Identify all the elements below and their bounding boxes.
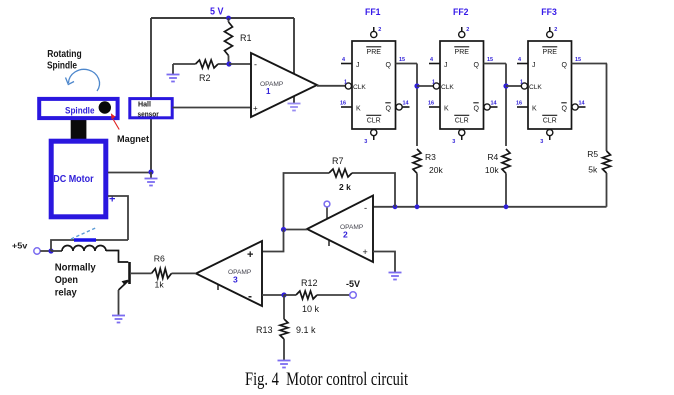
svg-text:OPAMP: OPAMP bbox=[260, 81, 284, 88]
flip-flop FF3 J pin stub (pin 4) bbox=[517, 63, 528, 65]
op-amp U2 triangle bbox=[307, 196, 373, 263]
wire +5v terminal to junction bbox=[40, 250, 51, 252]
wire relay contact branch bbox=[51, 240, 128, 251]
ground at opamp U2 plus input bbox=[389, 272, 402, 274]
svg-text:2: 2 bbox=[466, 27, 469, 33]
svg-text:FF2: FF2 bbox=[453, 7, 469, 17]
op-amp U3 triangle bbox=[196, 241, 262, 306]
wire FF3 Q drop to R5 bbox=[606, 64, 608, 152]
svg-text:3: 3 bbox=[364, 139, 367, 145]
svg-text:Hall: Hall bbox=[138, 102, 151, 109]
terminal -5V bbox=[350, 292, 357, 299]
wire flip-flop FF2 Q output bbox=[484, 63, 507, 65]
svg-text:15: 15 bbox=[399, 57, 405, 63]
flip-flop FF2 CLR bubble and stem (pin 3) bbox=[459, 130, 465, 136]
svg-text:2: 2 bbox=[343, 230, 348, 240]
wire motor positive terminal to relay contact bbox=[108, 196, 128, 240]
svg-text:+5v: +5v bbox=[12, 241, 28, 250]
svg-text:FF1: FF1 bbox=[365, 7, 381, 17]
svg-text:15: 15 bbox=[575, 57, 581, 63]
svg-text:PRE: PRE bbox=[367, 49, 382, 56]
svg-text:CLR: CLR bbox=[543, 118, 557, 125]
ground below R13 bbox=[278, 360, 291, 362]
wire opamp U2 output bbox=[284, 229, 308, 231]
flip-flop FF1 J pin stub (pin 4) bbox=[341, 63, 352, 65]
flip-flop FF1 PRE pin stem and bubble (pin 2) bbox=[373, 27, 375, 31]
svg-text:2: 2 bbox=[554, 27, 557, 33]
relay contact bar (blue) bbox=[74, 238, 96, 242]
wire FF2 Q drop to CLK3/R4 bbox=[505, 64, 507, 147]
resistor R4 bbox=[502, 149, 510, 173]
svg-text:-: - bbox=[248, 289, 252, 303]
transistor Q1 emitter wire bbox=[119, 281, 129, 291]
svg-text:R12: R12 bbox=[301, 278, 318, 288]
svg-text:Q: Q bbox=[562, 106, 568, 113]
svg-text:R13: R13 bbox=[256, 325, 273, 335]
wire to FF2 CLK bbox=[417, 85, 433, 87]
node relay junction bbox=[48, 248, 53, 253]
node FF1 Q / FF2 CLK junction bbox=[414, 83, 419, 88]
rotation arrow (blue arc) bbox=[69, 69, 100, 91]
ground below transistor Q1 bbox=[112, 315, 125, 317]
svg-text:10 k: 10 k bbox=[302, 304, 320, 314]
wire summing bus to opamp U2 inverting input bbox=[373, 206, 607, 208]
svg-text:FF3: FF3 bbox=[541, 7, 557, 17]
wire flip-flop FF3 Q output bbox=[572, 63, 608, 65]
svg-text:5k: 5k bbox=[588, 165, 598, 175]
transistor Q1 collector wire bbox=[106, 251, 128, 263]
wire opamp U3 minus input bbox=[262, 294, 284, 296]
dc motor box bbox=[51, 141, 106, 217]
op-amp U3 V- tick bbox=[217, 284, 219, 290]
flip-flop FF3 K pin stub (pin 16) bbox=[517, 106, 528, 108]
op-amp U2 V- tick bbox=[328, 240, 330, 246]
svg-text:16: 16 bbox=[428, 101, 434, 107]
node FF2 Q / FF3 CLK junction bbox=[503, 83, 508, 88]
svg-text:R7: R7 bbox=[332, 156, 344, 166]
flip-flop FF3 CLR bubble and stem (pin 3) bbox=[547, 130, 553, 136]
spindle box bbox=[39, 99, 117, 118]
svg-text:Q: Q bbox=[386, 62, 392, 69]
node R4 junction on bus bbox=[504, 204, 509, 209]
flip-flop FF3 PRE pin stem and bubble (pin 2) bbox=[549, 27, 551, 31]
svg-text:1: 1 bbox=[432, 80, 435, 86]
svg-text:Spindle: Spindle bbox=[65, 106, 95, 116]
flip-flop FF2 PRE pin stem and bubble (pin 2) bbox=[461, 27, 463, 31]
svg-text:14: 14 bbox=[491, 101, 498, 107]
flip-flop FF2 box bbox=[440, 41, 484, 129]
svg-text:Spindle: Spindle bbox=[47, 61, 77, 72]
flip-flop FF2 Qbar bubble and stub (pin 14) bbox=[484, 104, 490, 110]
wire R7 left leg to opamp U2 output bbox=[284, 173, 330, 230]
relay armature (dashed) bbox=[71, 228, 96, 239]
svg-text:J: J bbox=[532, 62, 536, 69]
svg-text:OPAMP: OPAMP bbox=[228, 269, 252, 276]
svg-text:K: K bbox=[532, 106, 537, 113]
flip-flop FF2 J pin stub (pin 4) bbox=[429, 63, 440, 65]
svg-text:PRE: PRE bbox=[455, 49, 470, 56]
resistor R12 bbox=[296, 291, 317, 299]
svg-text:J: J bbox=[356, 62, 360, 69]
transistor Q1 base bar bbox=[128, 262, 131, 284]
resistor R6 bbox=[152, 269, 172, 279]
svg-text:+: + bbox=[247, 249, 253, 261]
svg-text:9.1 k: 9.1 k bbox=[296, 325, 316, 335]
flip-flop FF2 CLK bubble (pin 1) bbox=[433, 83, 439, 89]
svg-text:R1: R1 bbox=[240, 33, 252, 43]
flip-flop FF3 CLK bubble (pin 1) bbox=[521, 83, 527, 89]
svg-text:16: 16 bbox=[340, 101, 346, 107]
svg-text:10k: 10k bbox=[485, 165, 499, 175]
hall sensor box bbox=[130, 99, 172, 118]
wire opamp U1 output to FF1 CLK bbox=[317, 85, 345, 87]
node R1-R2 junction bbox=[226, 61, 231, 66]
svg-text:3: 3 bbox=[233, 275, 238, 285]
ground at R2 left bbox=[172, 64, 174, 74]
svg-text:1: 1 bbox=[344, 80, 347, 86]
wire R7 right leg bbox=[352, 173, 395, 207]
svg-text:R3: R3 bbox=[425, 152, 436, 162]
resistor R13 bbox=[280, 319, 288, 339]
node 5V junction bbox=[226, 16, 231, 21]
flip-flop FF1 CLR bubble and stem (pin 3) bbox=[371, 130, 377, 136]
node motor/hall ground junction bbox=[148, 169, 153, 174]
resistor R7 bbox=[329, 169, 352, 177]
flip-flop FF3 Qbar bubble and stub (pin 14) bbox=[572, 104, 578, 110]
terminal +5v bbox=[34, 248, 40, 254]
svg-text:PRE: PRE bbox=[543, 49, 558, 56]
wire 5V supply rail bbox=[151, 17, 294, 19]
svg-text:2: 2 bbox=[378, 27, 381, 33]
svg-text:Q: Q bbox=[386, 106, 392, 113]
svg-text:relay: relay bbox=[55, 288, 77, 299]
flip-flop FF2 K pin stub (pin 16) bbox=[429, 106, 440, 108]
svg-text:Q: Q bbox=[474, 62, 480, 69]
magnet arrow (red) bbox=[113, 119, 119, 130]
svg-text:sensor: sensor bbox=[138, 111, 160, 118]
wire FF1 Q drop to CLK2/R3 bbox=[416, 64, 418, 147]
svg-text:1k: 1k bbox=[155, 279, 165, 289]
svg-text:16: 16 bbox=[516, 101, 522, 107]
magnet dot bbox=[99, 101, 111, 113]
svg-text:K: K bbox=[444, 106, 449, 113]
svg-text:15: 15 bbox=[487, 57, 493, 63]
svg-text:2 k: 2 k bbox=[339, 182, 351, 192]
svg-text:14: 14 bbox=[403, 101, 410, 107]
wire opamp U2 plus input to ground bbox=[373, 252, 395, 273]
node U3 inverting junction bbox=[281, 292, 286, 297]
svg-text:3: 3 bbox=[540, 139, 543, 145]
svg-text:5 V: 5 V bbox=[210, 7, 224, 18]
op-amp U2 power pin circle bbox=[326, 207, 328, 219]
svg-text:DC Motor: DC Motor bbox=[53, 174, 94, 185]
wire to FF3 CLK bbox=[506, 85, 521, 87]
svg-text:Rotating: Rotating bbox=[47, 49, 82, 60]
wire hall sensor output to opamp U1 non-inverting input bbox=[173, 107, 252, 109]
svg-text:20k: 20k bbox=[429, 165, 443, 175]
resistor R5 bbox=[603, 151, 611, 173]
svg-text:Fig. 4 Motor control circuit: Fig. 4 Motor control circuit bbox=[245, 370, 409, 390]
shaft between spindle and motor bbox=[71, 116, 87, 142]
svg-text:J: J bbox=[444, 62, 448, 69]
svg-text:Q: Q bbox=[474, 106, 480, 113]
svg-text:-: - bbox=[364, 203, 367, 214]
svg-text:R6: R6 bbox=[154, 254, 165, 264]
svg-text:Q: Q bbox=[562, 62, 568, 69]
op-amp U1 triangle bbox=[251, 53, 317, 117]
ground below opamp U1 bbox=[288, 103, 301, 105]
flip-flop FF1 Qbar bubble and stub (pin 14) bbox=[396, 104, 402, 110]
wire flip-flop FF1 Q output bbox=[396, 63, 418, 65]
svg-text:CLK: CLK bbox=[353, 84, 366, 91]
svg-text:+: + bbox=[363, 247, 368, 257]
node opamp U2 output junction bbox=[281, 227, 286, 232]
svg-text:Open: Open bbox=[55, 275, 78, 286]
svg-text:1: 1 bbox=[266, 87, 271, 96]
svg-text:3: 3 bbox=[452, 139, 455, 145]
svg-text:+: + bbox=[253, 104, 258, 113]
svg-text:CLK: CLK bbox=[441, 84, 454, 91]
svg-text:CLK: CLK bbox=[529, 84, 542, 91]
svg-text:CLR: CLR bbox=[455, 118, 469, 125]
resistor R2 bbox=[196, 60, 219, 68]
flip-flop FF1 K pin stub (pin 16) bbox=[341, 106, 352, 108]
node R7 junction on bus bbox=[393, 204, 398, 209]
wire opamp U1 V+ drop bbox=[293, 18, 295, 103]
svg-text:Magnet: Magnet bbox=[117, 134, 150, 145]
wire R2 junction to opamp U1 inverting input bbox=[229, 63, 251, 65]
flip-flop FF3 box bbox=[528, 41, 572, 129]
wire motor negative terminal to ground node bbox=[108, 172, 151, 174]
svg-text:-5V: -5V bbox=[346, 279, 360, 289]
svg-text:-: - bbox=[254, 60, 257, 70]
flip-flop FF1 box bbox=[352, 41, 396, 129]
ground below hall sensor bbox=[150, 172, 152, 178]
svg-text:14: 14 bbox=[579, 101, 586, 107]
svg-text:R5: R5 bbox=[587, 149, 598, 159]
svg-text:CLR: CLR bbox=[367, 118, 381, 125]
wire opamp U2 output to opamp U3 plus input bbox=[262, 230, 284, 252]
resistor R3 bbox=[413, 149, 421, 173]
svg-text:R2: R2 bbox=[199, 73, 211, 83]
wire hall sensor supply drop bbox=[150, 18, 152, 172]
svg-text:Normally: Normally bbox=[55, 262, 96, 273]
wire opamp U3 output to R6 bbox=[172, 272, 197, 274]
resistor R1 bbox=[225, 22, 233, 56]
node R3 junction on bus bbox=[415, 204, 420, 209]
svg-text:R4: R4 bbox=[487, 152, 498, 162]
svg-text:1: 1 bbox=[520, 80, 523, 86]
svg-text:K: K bbox=[356, 106, 361, 113]
flip-flop FF1 CLK bubble (pin 1) bbox=[345, 83, 351, 89]
relay coil L1 bbox=[51, 250, 62, 252]
